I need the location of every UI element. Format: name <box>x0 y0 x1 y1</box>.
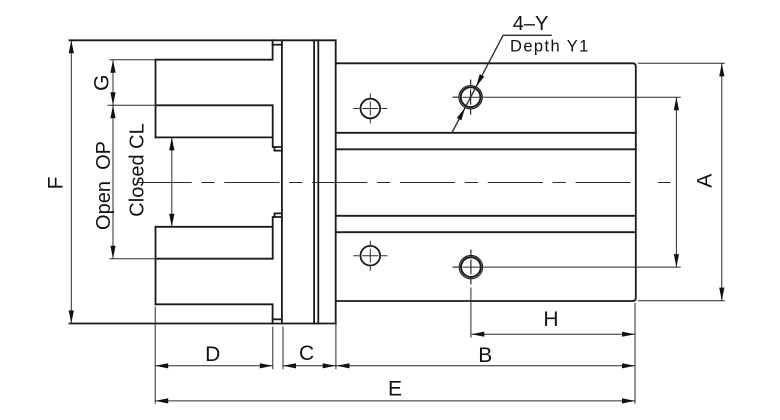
extension line body left edge down <box>335 324 337 370</box>
arrowheads dimension A <box>719 63 724 76</box>
dimension A top extension <box>638 62 725 64</box>
flange bottom surface line (also F bottom extension) <box>70 323 336 325</box>
extension line left jaw edge down <box>154 307 156 404</box>
svg-text:D: D <box>205 343 220 366</box>
svg-text:4–Y: 4–Y <box>513 13 549 35</box>
flange top surface line (also F top extension) <box>70 39 336 41</box>
upper jaw left edge <box>155 60 157 138</box>
threaded hole top outer <box>459 86 482 109</box>
bottom hole center line extension down to H <box>470 288 472 338</box>
flange left face <box>281 40 283 323</box>
dimension E line <box>155 400 635 402</box>
dimension D line <box>155 365 273 367</box>
small hole top cross <box>353 108 387 110</box>
svg-text:Depth Y1: Depth Y1 <box>510 37 590 55</box>
small hole bottom cross <box>353 255 387 257</box>
small hole bottom <box>361 246 381 266</box>
svg-text:E: E <box>388 378 402 401</box>
hole spacing dimension line <box>675 97 677 267</box>
svg-text:C: C <box>299 342 314 365</box>
arrowheads dimension E <box>155 398 168 403</box>
lower jaw plate bottom and right step down <box>156 304 273 323</box>
dimension F line <box>70 40 72 323</box>
body rail line 3 <box>336 215 636 217</box>
dimension A bottom extension <box>638 300 725 302</box>
threaded hole bottom center lines <box>453 266 460 268</box>
svg-text:B: B <box>478 344 492 367</box>
small hole top <box>361 99 381 119</box>
arrowheads dimension D <box>155 363 168 368</box>
threaded hole bottom outer <box>459 255 482 278</box>
arrowheads dimension C <box>283 363 296 368</box>
arrowheads dimension H <box>471 332 484 337</box>
lower jaw block top <box>156 226 273 228</box>
body rail line 2 <box>336 148 636 150</box>
dimension CL line <box>171 137 173 226</box>
upper jaw plate bottom and carriage face <box>156 105 275 147</box>
dimension C line <box>283 365 336 367</box>
arrowhead leader top (points down-left at circle) <box>476 74 484 87</box>
extension line lower jaw plate top, left of jaw <box>110 258 156 260</box>
lower rail tab <box>275 213 282 217</box>
flange inner vertical line 1 <box>313 40 315 323</box>
arrowheads dimension OP <box>110 105 115 118</box>
leader line 4-Y <box>452 35 552 133</box>
body rail line 1 <box>336 132 636 134</box>
body rail line 4 <box>336 231 636 233</box>
dimension H line <box>471 333 635 335</box>
svg-text:G: G <box>91 75 114 91</box>
svg-text:Closed CL: Closed CL <box>127 123 149 216</box>
svg-text:Open OP: Open OP <box>93 141 115 230</box>
extension line jaw plate top, left of jaw <box>110 59 156 61</box>
top notch under flange top <box>273 44 282 46</box>
main horizontal center line <box>137 182 637 184</box>
lower jaw plate top and carriage face <box>156 217 275 259</box>
threaded hole top inner <box>461 87 481 107</box>
svg-text:A: A <box>694 174 717 188</box>
extension line jaw plate bottom, left of jaw <box>108 104 156 106</box>
arrowhead leader bottom (points up-right at circle) <box>457 108 465 121</box>
bottom notch above flange bottom <box>273 318 282 320</box>
upper rail tab <box>275 147 282 151</box>
arrowheads dimension CL <box>169 137 174 150</box>
threaded hole top center lines <box>453 96 460 98</box>
flange inner vertical line 2 <box>317 40 319 323</box>
lower jaw left edge <box>155 227 157 304</box>
arrowheads dimension G <box>110 60 115 73</box>
dimension B line <box>337 365 636 367</box>
arrowheads hole spacing dimension <box>674 97 679 110</box>
dimension A line <box>721 63 723 300</box>
arrowheads dimension F <box>69 40 74 53</box>
extension line body right edge down <box>634 303 636 404</box>
threaded hole bottom inner <box>461 257 481 277</box>
upper jaw block bottom <box>156 136 273 138</box>
arrowheads dimension B <box>337 363 350 368</box>
svg-text:F: F <box>45 177 68 190</box>
center line dash right of body <box>658 182 671 184</box>
dimension G / OP shared line <box>112 60 114 259</box>
body outline <box>336 63 636 301</box>
flange right edge / body left edge <box>335 40 337 323</box>
svg-text:H: H <box>543 308 558 331</box>
upper jaw plate top and right step up <box>156 40 273 59</box>
extension line flange left face down <box>282 327 284 370</box>
extension line jaw right end down <box>272 327 274 370</box>
